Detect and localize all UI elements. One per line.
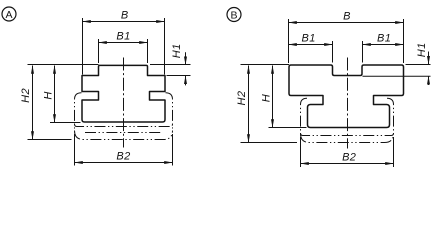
top extension line (A) for H and H2 [28, 64, 99, 66]
dimension B1 (A): extension lines [98, 39, 100, 63]
svg-text:H: H [261, 94, 273, 102]
top extension line (B) for H and H2 [241, 64, 290, 66]
svg-text:A: A [5, 9, 12, 21]
dimension H1 (B): arrows outside [428, 52, 430, 65]
svg-text:B: B [230, 9, 237, 21]
svg-text:H1: H1 [171, 43, 183, 58]
phantom channel A outer bottom [75, 131, 173, 140]
dimension B1 left (B): line and arrows [289, 44, 333, 46]
dimension B1 right (B): line and arrows [363, 44, 404, 46]
bottom extension line for H (A) [50, 122, 81, 124]
centerline A [123, 58, 125, 148]
dimension H (A): line and arrows [54, 66, 56, 123]
variant label A circle [2, 7, 16, 21]
dimension H1 (A): extension lines [150, 64, 191, 66]
svg-text:B: B [343, 11, 350, 23]
dimension B (B): line and arrows [289, 22, 404, 24]
dimension H (B): line and arrows [272, 66, 274, 128]
phantom channel B inner bottom [301, 133, 394, 136]
dimension B1 (A): line and arrows [99, 42, 148, 44]
centerline B [347, 58, 349, 149]
bottom extension line for H (B) [269, 127, 307, 129]
dimension B2 (A): extension lines [74, 134, 76, 166]
rail profile B (solid section outline) [289, 65, 404, 128]
svg-text:B1: B1 [301, 33, 315, 45]
rail profile A (solid section outline) [82, 65, 165, 122]
dimension B (A): line and arrows [83, 21, 165, 23]
svg-text:B: B [121, 10, 128, 22]
svg-text:H2: H2 [20, 88, 32, 103]
svg-text:B2: B2 [116, 151, 130, 163]
svg-text:B1: B1 [377, 33, 391, 45]
svg-text:H: H [42, 92, 54, 100]
svg-text:H1: H1 [416, 42, 428, 57]
bottom extension line for H2 (A) [28, 139, 72, 141]
dimension B (B): extension lines [288, 19, 290, 63]
svg-text:H2: H2 [236, 91, 248, 106]
svg-text:B1: B1 [116, 31, 130, 43]
dimension B2 (B): line and arrows [301, 163, 394, 165]
dimension H2 (B): line and arrows [248, 66, 250, 143]
dimension B2 (A): line and arrows [75, 162, 173, 164]
dimension B (A): extension lines [82, 18, 84, 75]
dimension B2 (B): extension lines [300, 137, 302, 167]
variant label B circle [227, 8, 241, 22]
phantom channel A left wall and hook [75, 93, 82, 129]
phantom channel B outer bottom [301, 134, 394, 143]
phantom channel A right wall and hook [166, 93, 173, 129]
phantom channel A inner bottom [75, 124, 173, 127]
phantom channel A middle bottom line [85, 132, 163, 134]
svg-text:B2: B2 [342, 152, 356, 164]
phantom channel B left wall and hook [301, 98, 308, 133]
dimension H2 (A): line and arrows [32, 66, 34, 140]
dimension H1 (B): extension lines [406, 64, 431, 66]
dimension B1 left (B): extension lines [332, 41, 334, 63]
bottom extension line for H2 (B) [241, 142, 298, 144]
phantom channel B right wall and hook [387, 98, 394, 133]
dimension H1 (A): arrows outside [185, 52, 187, 65]
